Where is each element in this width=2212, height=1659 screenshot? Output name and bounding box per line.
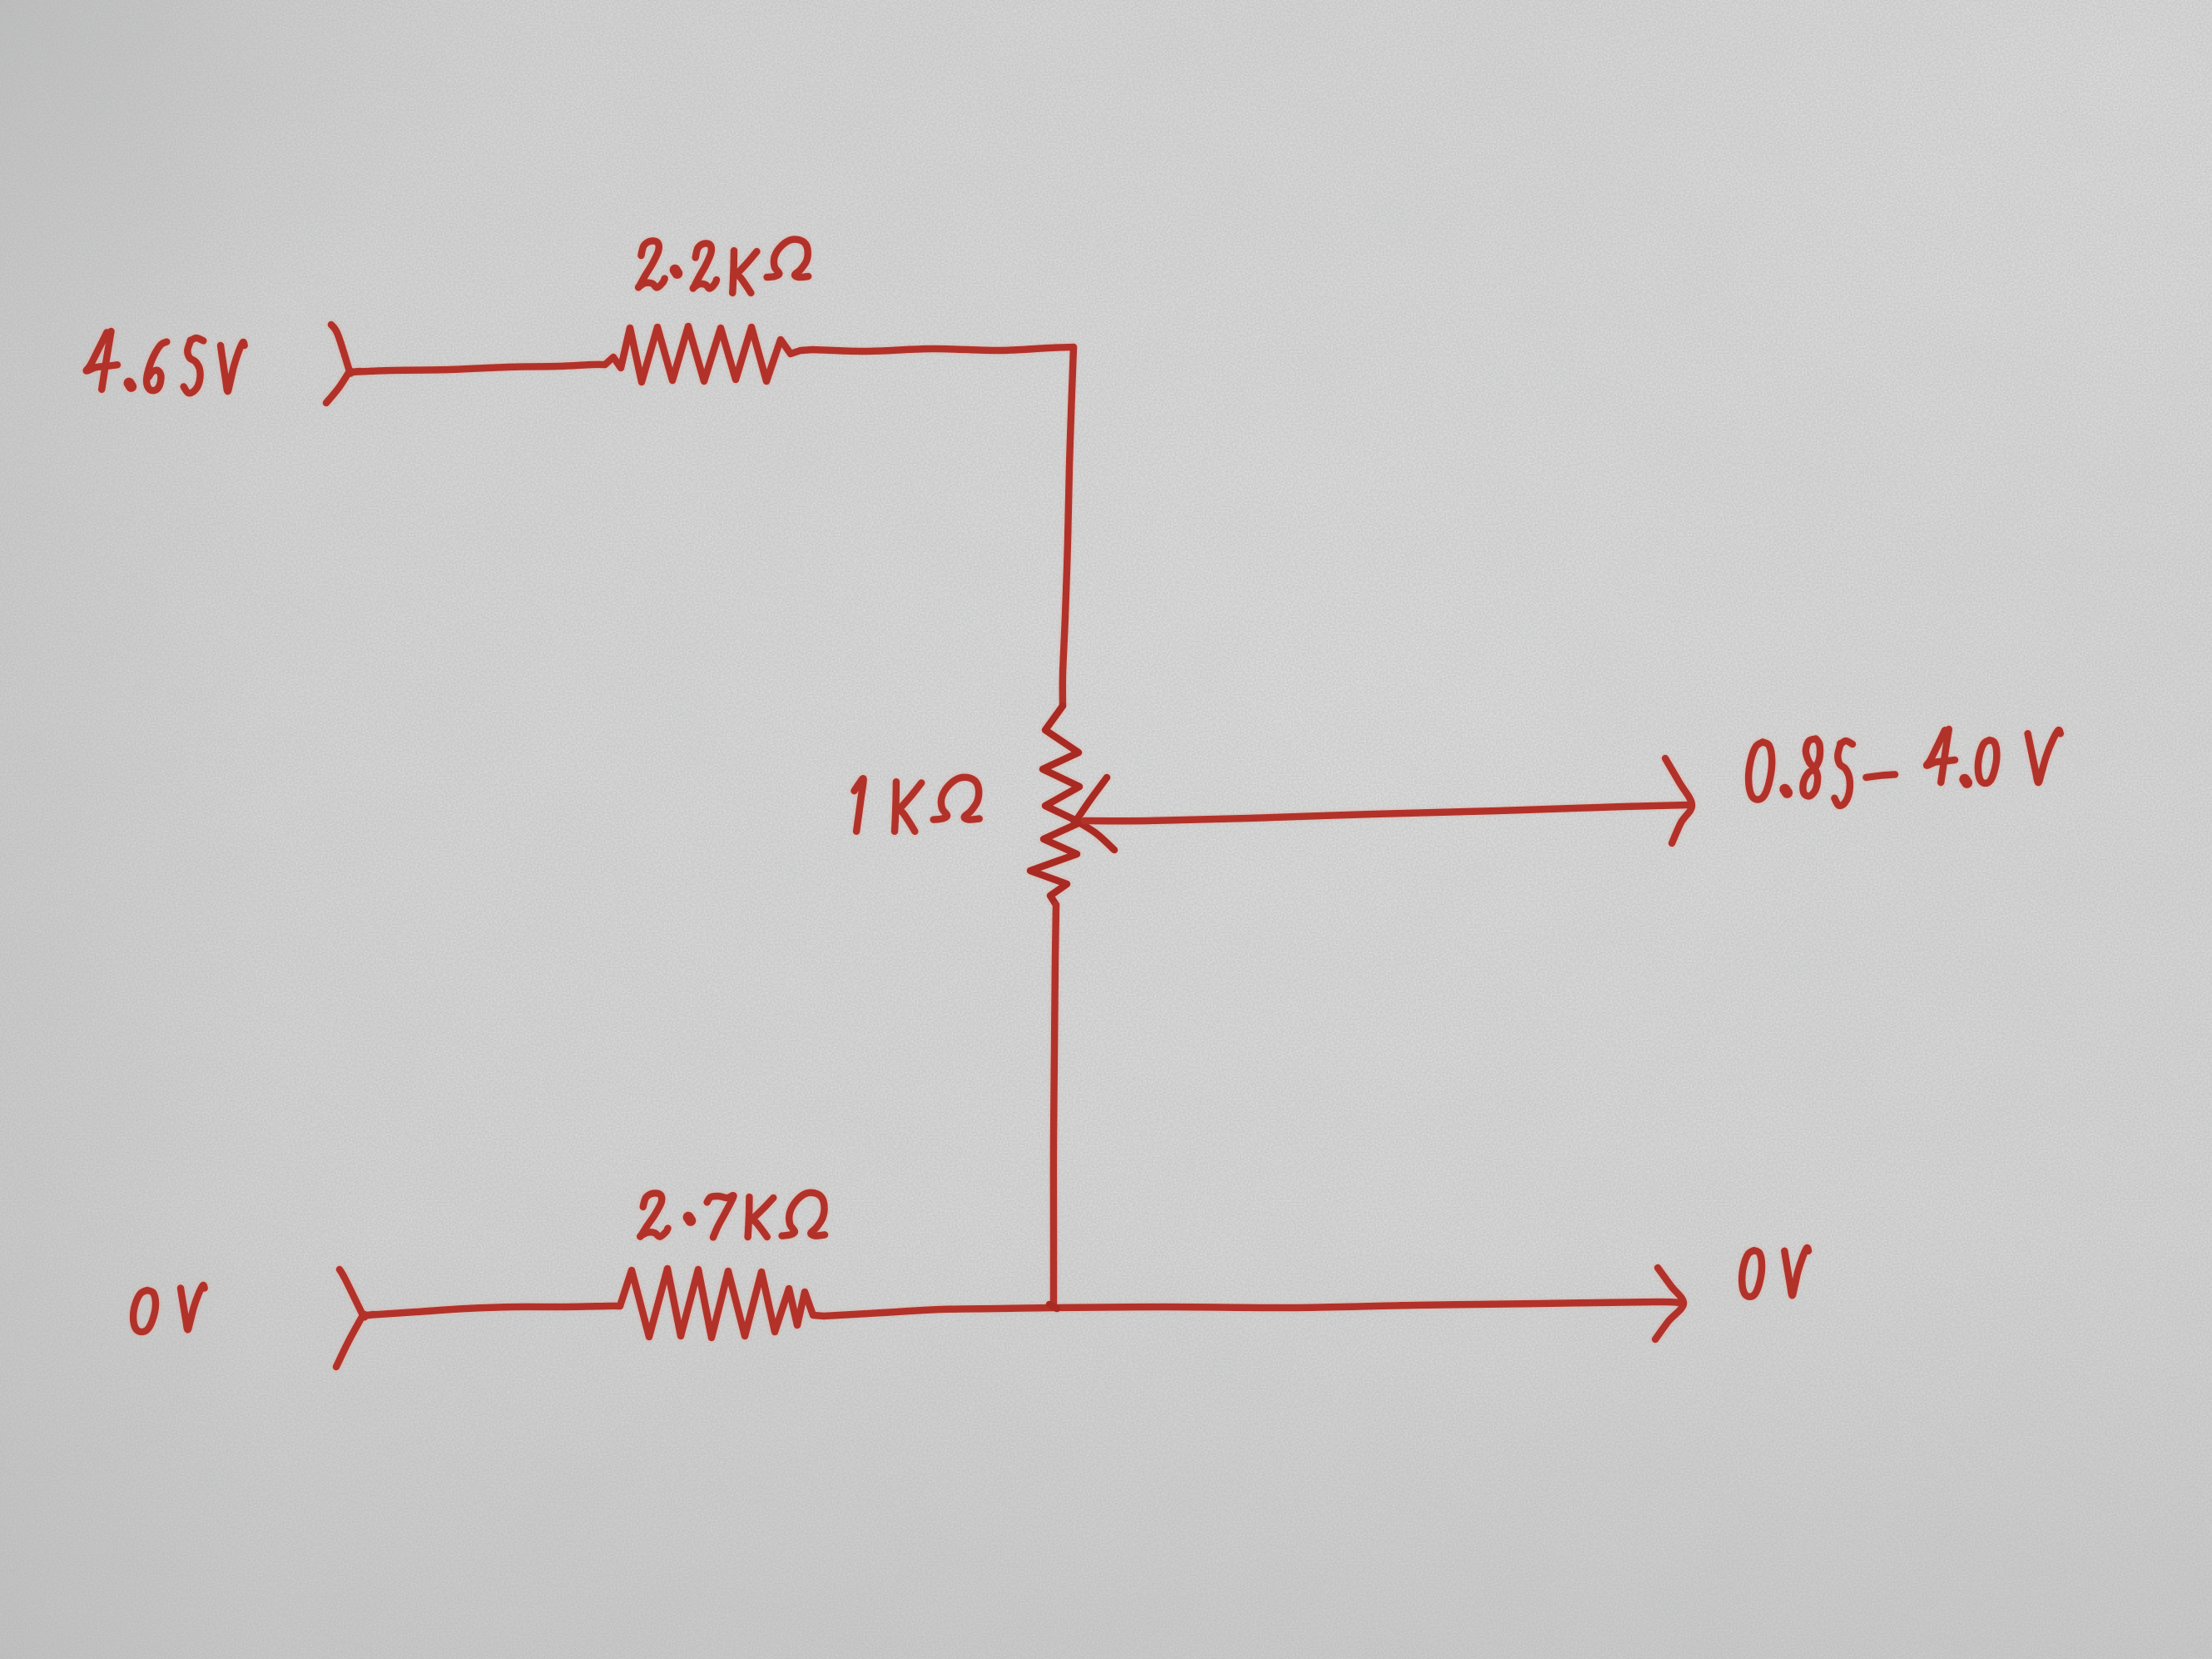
potentiometer wiper arrowhead [1074,777,1114,850]
potentiometer RV1 1K ohm vertical zigzag [1030,706,1080,905]
wire from R1 to top corner [813,347,1074,351]
wire from wiper to output [1084,805,1688,821]
wire vertical from corner down to potentiometer [1063,347,1074,706]
junction of vertical wire and bottom rail [1049,1304,1057,1309]
value label 1K ohm [855,777,980,832]
value label 2.7K ohm [640,1193,825,1238]
wire vertical from potentiometer down to bottom rail junction [1054,905,1056,1308]
wire from 4.65V input to R1 [350,365,605,372]
0V output arrowhead pointing right [1655,1268,1684,1339]
output arrowhead pointing right [1665,758,1692,843]
value label 2.2K ohm [638,240,808,293]
wire from 0V input to R2 [366,1306,620,1315]
wire bottom rail from R2 through junction to 0V output [824,1302,1679,1316]
voltage label 0V right [1742,1248,1808,1297]
node 4.65V input connector chevron [326,325,360,403]
node 0V input connector chevron [336,1269,374,1367]
voltage label 0V left [133,1285,205,1332]
resistor R1 2.2K ohm zigzag [605,326,813,382]
voltage label 4.65V [87,331,245,393]
resistor R2 2.7K ohm zigzag [620,1269,824,1338]
voltage label 0.85 - 4.0 V [1748,729,2061,806]
